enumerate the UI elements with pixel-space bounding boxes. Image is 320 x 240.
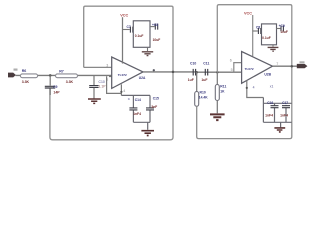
svg-text:C8: C8 [256, 25, 260, 29]
svg-text:C10: C10 [190, 62, 196, 66]
svg-text:C11: C11 [203, 62, 209, 66]
svg-text:3nF: 3nF [151, 105, 157, 109]
svg-text:C10: C10 [99, 80, 105, 84]
svg-text:1K: 1K [220, 90, 225, 94]
svg-text:x1: x1 [270, 85, 274, 89]
svg-text:1nF4: 1nF4 [280, 114, 288, 118]
svg-text:6: 6 [230, 58, 232, 62]
svg-text:U2A: U2A [139, 76, 146, 80]
svg-text:3.3K: 3.3K [66, 80, 74, 84]
svg-text:R7: R7 [59, 70, 64, 74]
svg-text:0.1uF: 0.1uF [262, 36, 271, 40]
svg-text:4: 4 [253, 86, 255, 90]
svg-text:C14: C14 [135, 98, 141, 102]
svg-text:7: 7 [276, 62, 278, 66]
svg-text:C16: C16 [267, 101, 273, 105]
svg-text:VCC: VCC [244, 11, 252, 15]
svg-text:R6: R6 [22, 69, 27, 73]
svg-text:1uF: 1uF [188, 78, 194, 82]
svg-text:C9: C9 [53, 85, 58, 89]
svg-text:1nF4: 1nF4 [265, 114, 273, 118]
svg-text:5: 5 [231, 68, 233, 72]
svg-text:R11: R11 [220, 85, 226, 89]
svg-text:VCC: VCC [120, 14, 128, 18]
svg-text:1nF4: 1nF4 [133, 112, 141, 116]
svg-text:3.3K: 3.3K [22, 80, 30, 84]
svg-text:14.4K: 14.4K [199, 96, 208, 100]
svg-text:C15: C15 [153, 97, 159, 101]
svg-text:1uF: 1uF [201, 78, 207, 82]
svg-text:TL072: TL072 [118, 73, 127, 77]
svg-text:10uF: 10uF [280, 30, 288, 34]
svg-text:14P: 14P [53, 90, 60, 94]
svg-text:+C8: +C8 [152, 23, 158, 27]
svg-text:0.1uF: 0.1uF [135, 34, 144, 38]
svg-text:C17: C17 [282, 101, 288, 105]
svg-text:1.1P: 1.1P [99, 85, 107, 89]
svg-text:C7: C7 [127, 25, 131, 29]
svg-text:TL072: TL072 [245, 67, 254, 71]
svg-text:10uF: 10uF [153, 38, 161, 42]
svg-text:C: C [128, 97, 131, 101]
svg-text:+C9: +C9 [279, 24, 285, 28]
svg-text:4: 4 [123, 89, 125, 93]
svg-text:3: 3 [106, 63, 108, 67]
svg-text:R10: R10 [200, 91, 206, 95]
svg-text:U2B: U2B [264, 72, 271, 76]
